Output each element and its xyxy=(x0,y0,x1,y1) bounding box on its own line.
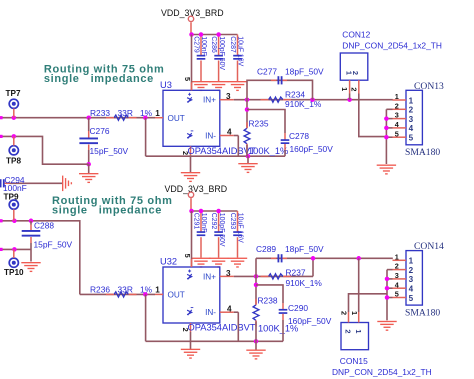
svg-text:OUT: OUT xyxy=(168,114,185,123)
svg-text:1: 1 xyxy=(155,109,160,118)
svg-text:18pF_50V: 18pF_50V xyxy=(285,244,324,254)
svg-text:15pF_50V: 15pF_50V xyxy=(34,240,73,250)
svg-text:C279: C279 xyxy=(192,36,199,53)
svg-text:DNP_CON_2D54_1x2_TH: DNP_CON_2D54_1x2_TH xyxy=(342,41,442,51)
svg-text:5: 5 xyxy=(395,290,399,299)
svg-text:100nF: 100nF xyxy=(200,213,207,233)
svg-text:IN-: IN- xyxy=(205,132,216,141)
svg-text:5: 5 xyxy=(183,254,192,258)
svg-text:15pF_50V: 15pF_50V xyxy=(90,146,129,156)
svg-text:2: 2 xyxy=(340,311,349,315)
svg-text:5: 5 xyxy=(409,134,414,143)
svg-text:3: 3 xyxy=(409,115,414,124)
svg-text:2: 2 xyxy=(395,262,399,271)
svg-text:1: 1 xyxy=(395,252,399,261)
svg-text:C288: C288 xyxy=(34,220,54,230)
svg-text:2: 2 xyxy=(409,266,414,275)
svg-text:U3: U3 xyxy=(160,80,172,90)
svg-text:1: 1 xyxy=(354,329,363,333)
svg-text:33R: 33R xyxy=(118,108,133,118)
svg-text:5: 5 xyxy=(409,294,414,303)
svg-text:1: 1 xyxy=(409,96,414,105)
svg-text:OPA354AIDBVT: OPA354AIDBVT xyxy=(188,323,256,333)
svg-text:4: 4 xyxy=(409,285,414,294)
svg-text:singleimpedance: singleimpedance xyxy=(44,73,154,85)
svg-text:C293: C293 xyxy=(229,213,236,230)
svg-text:C277: C277 xyxy=(257,67,277,77)
svg-text:100K_1%: 100K_1% xyxy=(248,146,288,156)
svg-text:TP7: TP7 xyxy=(6,89,21,98)
svg-text:C286: C286 xyxy=(210,36,217,53)
svg-text:OPA354AIDBVT: OPA354AIDBVT xyxy=(188,146,256,156)
svg-text:100nF: 100nF xyxy=(200,36,207,56)
svg-text:910K_1%: 910K_1% xyxy=(286,278,323,288)
svg-text:5: 5 xyxy=(183,77,192,81)
svg-text:C289: C289 xyxy=(256,244,276,254)
svg-text:C276: C276 xyxy=(90,126,110,136)
svg-text:1: 1 xyxy=(395,92,399,101)
svg-text:C290: C290 xyxy=(288,303,308,313)
svg-text:TP8: TP8 xyxy=(6,156,21,165)
svg-text:C291: C291 xyxy=(192,213,199,230)
svg-text:CON15: CON15 xyxy=(340,356,368,366)
svg-text:CON13: CON13 xyxy=(414,81,444,92)
svg-text:VDD_3V3_BRD: VDD_3V3_BRD xyxy=(165,184,228,194)
svg-text:3: 3 xyxy=(395,111,399,120)
svg-text:4: 4 xyxy=(227,128,232,137)
svg-text:1: 1 xyxy=(350,311,359,315)
svg-text:100pF 50V: 100pF 50V xyxy=(218,213,225,247)
svg-text:C292: C292 xyxy=(210,213,217,230)
svg-text:4: 4 xyxy=(227,304,232,313)
svg-text:100pF 50V: 100pF 50V xyxy=(218,36,225,70)
svg-text:18pF_50V: 18pF_50V xyxy=(285,67,324,77)
svg-text:3: 3 xyxy=(395,271,399,280)
svg-text:2: 2 xyxy=(395,101,399,110)
svg-text:2: 2 xyxy=(351,71,360,75)
svg-text:33R: 33R xyxy=(118,285,133,295)
svg-text:160pF_50V: 160pF_50V xyxy=(290,144,334,154)
svg-text:DNP_CON_2D54_1x2_TH: DNP_CON_2D54_1x2_TH xyxy=(332,367,432,377)
svg-text:R233: R233 xyxy=(90,108,110,118)
svg-text:1%: 1% xyxy=(140,285,153,295)
svg-text:2: 2 xyxy=(409,106,414,115)
svg-text:R237: R237 xyxy=(286,268,306,278)
svg-text:OUT: OUT xyxy=(168,291,185,300)
svg-text:2: 2 xyxy=(350,87,359,91)
svg-text:R236: R236 xyxy=(90,285,110,295)
svg-text:1%: 1% xyxy=(140,108,153,118)
svg-text:1: 1 xyxy=(409,257,414,266)
svg-text:IN+: IN+ xyxy=(203,96,216,105)
svg-text:1: 1 xyxy=(340,87,349,91)
svg-text:SMA180: SMA180 xyxy=(405,307,440,318)
svg-text:TP10: TP10 xyxy=(4,268,24,277)
svg-text:R238: R238 xyxy=(258,295,278,305)
svg-text:2: 2 xyxy=(344,329,353,333)
svg-text:CON12: CON12 xyxy=(342,29,370,39)
svg-text:1: 1 xyxy=(155,286,160,295)
svg-text:singleimpedance: singleimpedance xyxy=(52,205,162,217)
svg-text:3: 3 xyxy=(409,275,414,284)
svg-text:4: 4 xyxy=(409,124,414,133)
svg-text:R235: R235 xyxy=(249,118,269,128)
svg-text:U32: U32 xyxy=(160,257,177,267)
svg-text:5: 5 xyxy=(395,129,399,138)
svg-text:C278: C278 xyxy=(289,131,309,141)
svg-text:CON14: CON14 xyxy=(414,241,444,252)
svg-text:IN-: IN- xyxy=(205,308,216,317)
svg-text:10uF 16V: 10uF 16V xyxy=(237,213,244,243)
svg-text:910K_1%: 910K_1% xyxy=(285,99,322,109)
svg-text:160pF_50V: 160pF_50V xyxy=(288,316,332,326)
svg-text:SMA180: SMA180 xyxy=(405,147,440,158)
svg-text:IN+: IN+ xyxy=(203,272,216,281)
svg-text:10uF 16V: 10uF 16V xyxy=(237,36,244,66)
svg-text:C287: C287 xyxy=(229,36,236,53)
